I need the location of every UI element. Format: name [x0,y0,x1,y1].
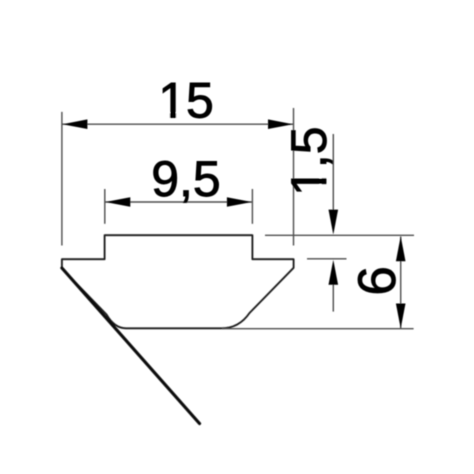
svg-text:1,5: 1,5 [281,126,337,196]
profile outline (T-slot nut cross-section) [62,235,294,328]
arrow left of 9,5 [105,197,130,207]
extension line right (15) [293,108,295,246]
dimension line 1,5 upper [332,134,334,211]
arrow up of 1,5 [329,260,339,285]
arrow right of 9,5 [227,197,252,207]
svg-text:15: 15 [158,73,214,129]
arrow right of 15 [268,119,293,129]
svg-text:9,5: 9,5 [151,151,221,207]
thick diagonal line [62,268,200,424]
extension line left (15) [61,112,63,246]
arrow left of 15 [62,119,87,129]
dimension line 15 [62,123,293,125]
arrow down of 1,5 [329,210,339,235]
arrow up of 6 [396,236,406,261]
extension line top-of-boss horizontal [265,234,414,236]
extension line right (9,5) [251,189,253,224]
dimension line 6 [400,237,402,329]
arrow down of 6 [396,304,406,329]
svg-text:6: 6 [348,266,407,295]
extension line left (9,5) [104,189,106,224]
extension line shoulder horizontal (1,5) [307,258,347,260]
dimension line 9,5 [105,201,252,203]
dimension line 1,5 lower [332,285,334,312]
extension line bottom horizontal (6) [222,328,414,330]
